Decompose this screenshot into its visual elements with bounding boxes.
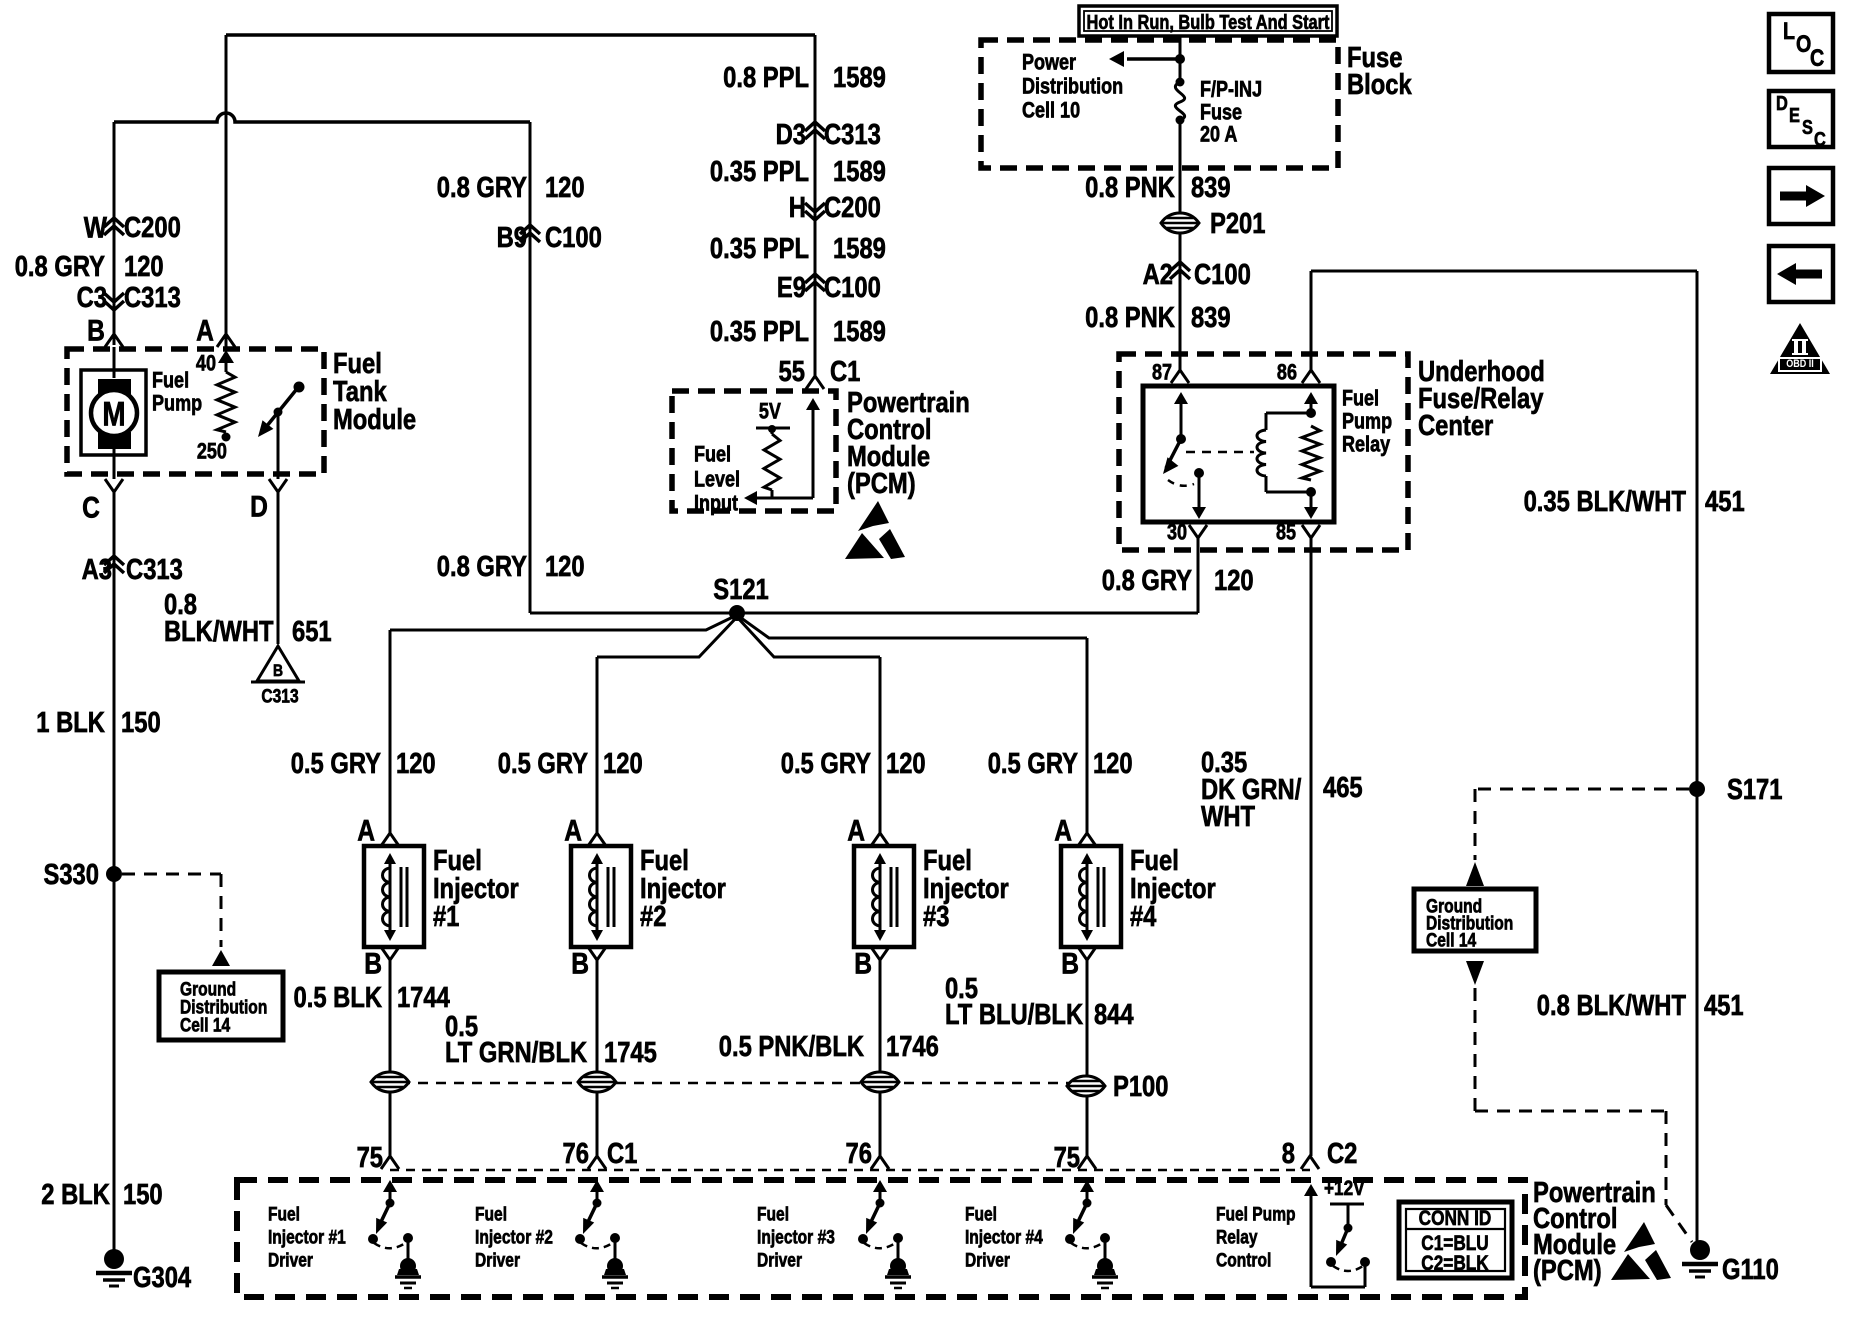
svg-text:Pump: Pump (1342, 410, 1392, 434)
svg-text:76: 76 (563, 1137, 589, 1170)
svg-text:C1: C1 (607, 1137, 637, 1170)
svg-text:C: C (1810, 44, 1824, 71)
svg-text:Fuel: Fuel (268, 1203, 300, 1225)
svg-text:0.35 PPL: 0.35 PPL (710, 155, 809, 188)
svg-text:1589: 1589 (833, 315, 886, 348)
svg-text:0.8 GRY: 0.8 GRY (1102, 564, 1193, 597)
svg-text:87: 87 (1152, 361, 1172, 385)
svg-text:150: 150 (121, 706, 161, 739)
svg-text:120: 120 (603, 747, 643, 780)
svg-text:1589: 1589 (833, 232, 886, 265)
svg-text:B: B (854, 946, 872, 980)
svg-text:120: 120 (545, 550, 585, 583)
svg-text:Cell 14: Cell 14 (1426, 929, 1476, 951)
svg-text:Driver: Driver (475, 1249, 520, 1271)
svg-text:C313: C313 (126, 553, 183, 586)
svg-text:Fuse: Fuse (1200, 101, 1242, 125)
svg-text:1745: 1745 (604, 1036, 657, 1069)
svg-text:120: 120 (124, 250, 164, 283)
svg-text:(PCM): (PCM) (847, 467, 916, 500)
svg-text:C200: C200 (824, 191, 881, 224)
svg-text:S: S (1802, 116, 1813, 139)
svg-text:1746: 1746 (886, 1030, 939, 1063)
svg-text:LT BLU/BLK: LT BLU/BLK (945, 998, 1083, 1031)
svg-text:Hot In Run, Bulb Test And Star: Hot In Run, Bulb Test And Start (1087, 11, 1330, 34)
svg-text:D3: D3 (776, 118, 806, 151)
svg-text:C313: C313 (824, 118, 881, 151)
svg-text:Cell 10: Cell 10 (1022, 99, 1080, 123)
svg-text:Block: Block (1347, 68, 1412, 101)
svg-text:1589: 1589 (833, 155, 886, 188)
svg-text:0.5 GRY: 0.5 GRY (988, 747, 1079, 780)
svg-text:O: O (1796, 30, 1811, 57)
svg-text:C313: C313 (261, 685, 299, 707)
svg-text:+12V: +12V (1324, 1178, 1365, 1201)
svg-text:Driver: Driver (965, 1249, 1010, 1271)
svg-text:WHT: WHT (1201, 800, 1255, 833)
svg-text:Distribution: Distribution (1022, 75, 1123, 99)
svg-text:30: 30 (1167, 521, 1187, 545)
svg-text:Fuel: Fuel (152, 369, 189, 393)
svg-text:A: A (1054, 813, 1072, 847)
svg-text:G110: G110 (1722, 1253, 1779, 1286)
svg-text:85: 85 (1276, 521, 1296, 545)
svg-text:A2: A2 (1143, 258, 1173, 291)
svg-text:844: 844 (1094, 998, 1134, 1031)
svg-text:Fuel: Fuel (965, 1203, 997, 1225)
svg-text:120: 120 (1093, 747, 1133, 780)
svg-text:0.5 GRY: 0.5 GRY (291, 747, 382, 780)
svg-text:Injector #1: Injector #1 (268, 1226, 346, 1248)
svg-text:0.8 PNK: 0.8 PNK (1085, 171, 1175, 204)
svg-text:P100: P100 (1113, 1070, 1168, 1103)
svg-text:Power: Power (1022, 51, 1076, 75)
svg-text:Injector #2: Injector #2 (475, 1226, 553, 1248)
svg-text:1744: 1744 (397, 981, 450, 1014)
svg-text:S121: S121 (713, 573, 768, 606)
svg-text:B: B (571, 946, 589, 980)
svg-text:L: L (1783, 17, 1795, 44)
svg-text:B: B (364, 946, 382, 980)
svg-text:B9: B9 (497, 221, 527, 254)
svg-text:Module: Module (333, 403, 416, 436)
svg-text:Driver: Driver (268, 1249, 313, 1271)
svg-text:Center: Center (1418, 409, 1493, 442)
svg-text:C: C (1814, 128, 1826, 151)
svg-text:D: D (250, 489, 268, 523)
svg-text:Fuel Pump: Fuel Pump (1216, 1203, 1296, 1225)
svg-text:451: 451 (1705, 485, 1745, 518)
svg-text:0.8 BLK/WHT: 0.8 BLK/WHT (1537, 989, 1686, 1022)
svg-text:Injector #4: Injector #4 (965, 1226, 1043, 1248)
svg-text:0.35 BLK/WHT: 0.35 BLK/WHT (1524, 485, 1686, 518)
svg-text:Control: Control (1216, 1249, 1271, 1271)
svg-text:#2: #2 (640, 900, 666, 933)
svg-text:120: 120 (396, 747, 436, 780)
svg-text:839: 839 (1191, 171, 1231, 204)
svg-text:#3: #3 (923, 900, 949, 933)
svg-text:B: B (273, 662, 283, 681)
svg-text:0.5 GRY: 0.5 GRY (781, 747, 872, 780)
svg-text:M: M (102, 395, 125, 433)
svg-text:(PCM): (PCM) (1533, 1254, 1602, 1287)
svg-text:D: D (1776, 92, 1788, 115)
svg-text:G304: G304 (133, 1261, 191, 1294)
svg-text:120: 120 (1214, 564, 1254, 597)
svg-text:A: A (357, 813, 375, 847)
svg-text:C2=BLK: C2=BLK (1421, 1253, 1489, 1276)
svg-text:BLK/WHT: BLK/WHT (164, 615, 274, 648)
svg-text:120: 120 (886, 747, 926, 780)
svg-text:Driver: Driver (757, 1249, 802, 1271)
svg-text:Pump: Pump (152, 392, 202, 416)
svg-text:Input: Input (694, 492, 738, 516)
svg-text:Injector #3: Injector #3 (757, 1226, 835, 1248)
svg-text:0.5 GRY: 0.5 GRY (498, 747, 589, 780)
svg-text:86: 86 (1277, 361, 1297, 385)
svg-text:465: 465 (1323, 771, 1363, 804)
svg-text:Cell 14: Cell 14 (180, 1014, 230, 1036)
svg-text:A: A (196, 313, 214, 347)
svg-text:76: 76 (846, 1137, 872, 1170)
svg-text:Fuel: Fuel (757, 1203, 789, 1225)
svg-text:651: 651 (292, 615, 332, 648)
svg-text:W: W (84, 210, 107, 244)
svg-text:1589: 1589 (833, 61, 886, 94)
svg-text:C200: C200 (124, 211, 181, 244)
svg-text:A3: A3 (82, 553, 112, 586)
svg-text:0.8 GRY: 0.8 GRY (437, 550, 528, 583)
svg-text:#1: #1 (433, 900, 459, 933)
svg-text:2 BLK: 2 BLK (41, 1178, 110, 1211)
svg-text:0.35 PPL: 0.35 PPL (710, 315, 809, 348)
svg-text:A: A (847, 813, 865, 847)
svg-text:S171: S171 (1727, 773, 1782, 806)
svg-text:1 BLK: 1 BLK (36, 706, 105, 739)
svg-text:55: 55 (779, 355, 805, 388)
svg-text:C100: C100 (824, 271, 881, 304)
svg-text:0.5 PNK/BLK: 0.5 PNK/BLK (719, 1030, 864, 1063)
svg-text:Level: Level (694, 468, 740, 492)
svg-text:451: 451 (1704, 989, 1744, 1022)
svg-text:8: 8 (1282, 1137, 1295, 1170)
svg-text:40: 40 (196, 352, 216, 376)
svg-text:E: E (1789, 104, 1800, 127)
svg-text:Fuel: Fuel (1342, 387, 1379, 411)
svg-text:250: 250 (197, 440, 227, 464)
svg-text:C100: C100 (545, 221, 602, 254)
svg-text:S330: S330 (43, 858, 98, 891)
svg-text:0.5 BLK: 0.5 BLK (294, 981, 382, 1014)
svg-text:Fuel: Fuel (694, 443, 731, 467)
svg-text:F/P-INJ: F/P-INJ (1200, 78, 1262, 102)
svg-text:0.8 GRY: 0.8 GRY (437, 171, 528, 204)
svg-text:CONN ID: CONN ID (1419, 1208, 1492, 1231)
svg-text:20 A: 20 A (1200, 123, 1237, 147)
svg-text:#4: #4 (1130, 900, 1157, 933)
svg-text:C100: C100 (1194, 258, 1251, 291)
svg-text:P201: P201 (1210, 207, 1265, 240)
svg-text:75: 75 (357, 1141, 383, 1174)
svg-text:A: A (564, 813, 582, 847)
svg-text:0.8 GRY: 0.8 GRY (15, 250, 106, 283)
svg-text:C2: C2 (1327, 1137, 1357, 1170)
svg-text:839: 839 (1191, 301, 1231, 334)
svg-text:Fuel: Fuel (475, 1203, 507, 1225)
svg-text:120: 120 (545, 171, 585, 204)
svg-text:75: 75 (1054, 1141, 1080, 1174)
svg-text:0.8 PNK: 0.8 PNK (1085, 301, 1175, 334)
svg-text:B: B (1061, 946, 1079, 980)
svg-text:Relay: Relay (1216, 1226, 1258, 1248)
svg-text:0.8 PPL: 0.8 PPL (723, 61, 809, 94)
svg-text:C1: C1 (830, 355, 860, 388)
svg-text:C3: C3 (77, 281, 107, 314)
svg-text:150: 150 (123, 1178, 163, 1211)
svg-text:E9: E9 (777, 271, 806, 304)
svg-text:5V: 5V (759, 400, 782, 424)
svg-text:OBD II: OBD II (1786, 358, 1814, 370)
svg-text:C: C (82, 490, 100, 524)
svg-text:B: B (87, 313, 105, 347)
svg-text:LT GRN/BLK: LT GRN/BLK (445, 1036, 587, 1069)
svg-text:Relay: Relay (1342, 433, 1391, 457)
svg-text:C313: C313 (124, 281, 181, 314)
svg-text:0.35 PPL: 0.35 PPL (710, 232, 809, 265)
svg-text:H: H (789, 191, 806, 224)
